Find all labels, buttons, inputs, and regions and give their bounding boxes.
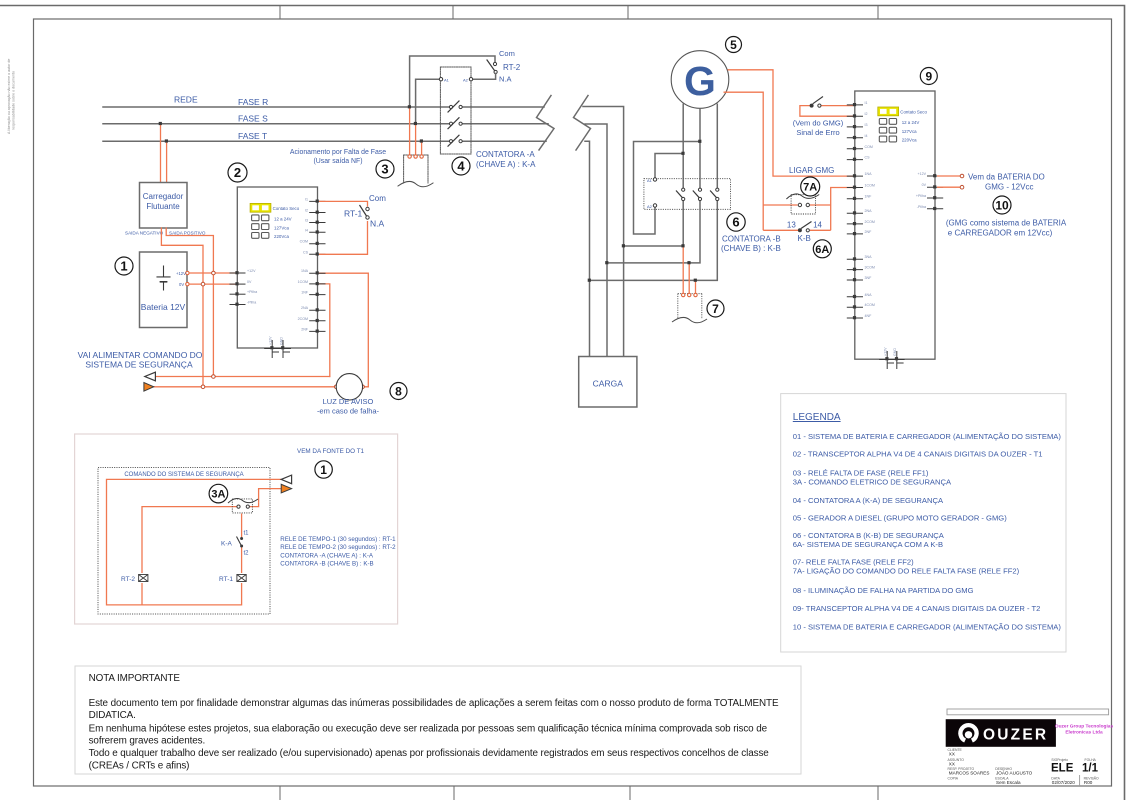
contact K-A timed xyxy=(221,531,249,557)
svg-text:SAIDA NEGATIVO: SAIDA NEGATIVO xyxy=(125,231,164,236)
svg-text:12 a 24V: 12 a 24V xyxy=(902,120,920,125)
wire battery +12V to T1 xyxy=(189,272,236,274)
left rotated disclaimer text xyxy=(7,59,16,134)
svg-text:7A: 7A xyxy=(803,182,817,194)
wire carregador positivo to +12V bus xyxy=(166,228,213,377)
svg-text:RELE DE TEMPO-2 (30 segundos): RELE DE TEMPO-2 (30 segundos) : RT-2 xyxy=(280,544,396,551)
svg-text:NOTA IMPORTANTE: NOTA IMPORTANTE xyxy=(89,673,181,684)
svg-text:1: 1 xyxy=(120,259,127,274)
wire open-arrow line xyxy=(156,376,330,378)
right pins I1..CS xyxy=(309,201,325,254)
svg-text:09- TRANSCEPTOR ALPHA V4 DE 4: 09- TRANSCEPTOR ALPHA V4 DE 4 CANAIS DIG… xyxy=(793,604,1041,613)
svg-text:-Pilha: -Pilha xyxy=(917,205,926,209)
wires K-B bottoms to FF2 (orange taps) xyxy=(683,246,695,294)
svg-text:+12V: +12V xyxy=(918,172,927,176)
contact K-A pole S xyxy=(448,118,462,129)
svg-text:1NF: 1NF xyxy=(301,291,309,295)
svg-text:2NA: 2NA xyxy=(301,306,309,310)
svg-text:I1: I1 xyxy=(305,197,308,201)
top ticks xyxy=(280,6,878,20)
svg-text:FOLHA: FOLHA xyxy=(1085,758,1097,762)
svg-text:1NA: 1NA xyxy=(865,172,873,176)
aux contact 7A (dashed box + wave) xyxy=(786,194,819,214)
svg-text:RT-2: RT-2 xyxy=(503,63,521,72)
svg-text:+12V: +12V xyxy=(269,336,273,345)
svg-text:XX: XX xyxy=(949,752,955,757)
logo icon: open ring + dot xyxy=(960,725,976,740)
svg-text:(Vem do GMG): (Vem do GMG) xyxy=(793,119,844,128)
svg-text:I3: I3 xyxy=(305,219,308,223)
switch RT-1 xyxy=(319,194,386,254)
svg-text:Este documento tem por finalid: Este documento tem por finalidade demons… xyxy=(89,698,779,709)
svg-text:SISTEMA DE SEGURANÇA: SISTEMA DE SEGURANÇA xyxy=(85,360,193,370)
wire carregador feed from FASE T xyxy=(166,141,168,182)
OUZER logo plate xyxy=(946,719,1056,747)
svg-text:220Vca: 220Vca xyxy=(902,138,917,143)
svg-text:3: 3 xyxy=(381,162,388,177)
svg-text:7: 7 xyxy=(712,302,719,316)
svg-text:1COM: 1COM xyxy=(298,280,308,284)
svg-text:Acionamento por Falta de Fase: Acionamento por Falta de Fase xyxy=(290,149,386,156)
svg-text:127Vca: 127Vca xyxy=(274,225,289,230)
wire continuation from break down to CARGA xyxy=(583,107,717,357)
svg-text:CS: CS xyxy=(303,250,309,254)
battery feed stubs xyxy=(937,176,961,187)
svg-text:14: 14 xyxy=(813,221,822,230)
right pins +12V 0V +Pilha -Pilha xyxy=(927,176,943,209)
wire FASE S xyxy=(103,123,548,125)
svg-text:2NA: 2NA xyxy=(865,209,873,213)
svg-text:I1: I1 xyxy=(865,101,868,105)
svg-text:7A- LIGAÇÃO DO COMANDO DO RELE: 7A- LIGAÇÃO DO COMANDO DO RELE FALTA FAS… xyxy=(793,566,1020,575)
svg-text:A1: A1 xyxy=(444,78,450,83)
junction rings orange xyxy=(201,271,364,388)
svg-text:0V: 0V xyxy=(922,183,927,187)
svg-text:2COM: 2COM xyxy=(298,317,308,321)
svg-text:(CHAVE A) : K-A: (CHAVE A) : K-A xyxy=(476,160,536,169)
lamp (luz de aviso) xyxy=(336,374,362,400)
svg-text:(GMG como sistema de BATERIA: (GMG como sistema de BATERIA xyxy=(946,219,1067,228)
node 3 xyxy=(376,160,394,178)
node 6 xyxy=(727,213,745,231)
wire com feed xyxy=(410,56,495,107)
notes xyxy=(280,536,396,568)
aux switch 3A (dashed box + wave) xyxy=(228,499,258,513)
node labels REDE / FASE xyxy=(174,95,268,142)
svg-text:3NF: 3NF xyxy=(865,276,873,280)
svg-text:G: G xyxy=(684,58,716,104)
svg-text:1NF: 1NF xyxy=(865,195,873,199)
svg-text:1COM: 1COM xyxy=(865,184,875,188)
svg-text:5: 5 xyxy=(730,38,737,52)
svg-text:2NF: 2NF xyxy=(301,327,309,331)
svg-text:6: 6 xyxy=(732,215,739,230)
svg-text:+12V: +12V xyxy=(247,269,256,273)
outer faint box xyxy=(75,434,398,624)
node 6A xyxy=(813,240,831,258)
bottom ticks xyxy=(280,786,878,800)
NOTA box xyxy=(75,666,801,774)
arrow out (orange) xyxy=(144,383,154,392)
contact K-B pole 3 xyxy=(710,188,719,201)
svg-text:e CARREGADOR em 12Vcc): e CARREGADOR em 12Vcc) xyxy=(948,229,1053,238)
svg-text:02/07/2020: 02/07/2020 xyxy=(1052,780,1075,785)
arrow in (open) xyxy=(145,372,156,381)
relay FF2 (dashed box, wavy bottom) xyxy=(672,293,707,322)
svg-text:220Vca: 220Vca xyxy=(274,234,289,239)
svg-text:I4: I4 xyxy=(305,228,308,232)
svg-text:N.A: N.A xyxy=(499,75,512,84)
node 3A xyxy=(209,484,228,503)
junction dots xyxy=(681,140,701,155)
node 1 (fonte) xyxy=(315,461,332,478)
svg-text:2: 2 xyxy=(234,165,241,180)
svg-text:COM: COM xyxy=(865,145,873,149)
texts right xyxy=(968,173,1045,192)
company name magenta xyxy=(1055,724,1114,736)
svg-text:+12V: +12V xyxy=(176,271,186,276)
top bar xyxy=(947,709,1109,715)
svg-text:3NA: 3NA xyxy=(865,255,873,259)
contact K-B pole 2 xyxy=(693,188,702,201)
svg-text:CONTATORA -B (CHAVE B) : K-B: CONTATORA -B (CHAVE B) : K-B xyxy=(280,561,373,568)
node 7A xyxy=(801,177,820,196)
svg-text:SAIDA POSITIVO: SAIDA POSITIVO xyxy=(169,231,206,236)
switch RT-2 xyxy=(493,62,496,65)
svg-text:Com: Com xyxy=(499,49,515,58)
svg-text:03 - RELÉ FALTA DE FASE (RELE: 03 - RELÉ FALTA DE FASE (RELE FF1) xyxy=(793,469,929,478)
svg-text:LIGAR GMG: LIGAR GMG xyxy=(789,166,834,175)
svg-text:1: 1 xyxy=(320,463,327,477)
svg-text:Contato Seco: Contato Seco xyxy=(273,206,300,211)
left pins +12V 0V +Pilha -Pilha xyxy=(230,273,246,305)
contact K-B pole 1 xyxy=(676,188,685,201)
svg-text:GND: GND xyxy=(893,348,897,356)
wire coil A1 tap xyxy=(655,154,683,179)
svg-text:Eletronicas Ltda: Eletronicas Ltda xyxy=(1065,730,1103,736)
svg-text:+Pilha: +Pilha xyxy=(247,290,257,294)
svg-text:VAI ALIMENTAR COMANDO DO: VAI ALIMENTAR COMANDO DO xyxy=(78,350,203,360)
CARGA box xyxy=(579,357,637,408)
svg-text:Carregador: Carregador xyxy=(143,192,184,201)
contato seco selector (yellow) xyxy=(250,203,300,212)
svg-text:6A: 6A xyxy=(815,244,829,256)
svg-text:RELE DE TEMPO-1 (30 segundos): RELE DE TEMPO-1 (30 segundos) : RT-1 xyxy=(280,536,396,543)
svg-text:CONTATORA -A (CHAVE A) : K-A: CONTATORA -A (CHAVE A) : K-A xyxy=(280,552,374,559)
contact K-A pole R xyxy=(448,101,462,112)
break (left zigzag) xyxy=(537,96,555,151)
right vertical to 1COM xyxy=(831,188,854,231)
left pins relay groups xyxy=(847,176,863,318)
svg-text:CARGA: CARGA xyxy=(593,379,624,389)
wire G phases down xyxy=(683,104,717,189)
svg-text:COPIA: COPIA xyxy=(948,777,959,781)
svg-text:2COM: 2COM xyxy=(865,220,875,224)
battery symbol xyxy=(157,266,170,290)
node 5 xyxy=(726,37,742,53)
node 4 xyxy=(452,157,470,175)
svg-text:6A- SISTEMA DE SEGURANÇA COM A: 6A- SISTEMA DE SEGURANÇA COM A K-B xyxy=(793,540,943,549)
terminal +12V xyxy=(186,271,189,274)
junction dots xyxy=(408,105,423,142)
svg-text:CONTATORA -B: CONTATORA -B xyxy=(722,235,781,244)
svg-text:CS: CS xyxy=(865,156,871,160)
svg-text:RT-2: RT-2 xyxy=(121,576,135,583)
node 8 xyxy=(390,383,407,400)
svg-text:10: 10 xyxy=(995,199,1009,213)
svg-text:-Pilha: -Pilha xyxy=(247,301,256,305)
right pins 1NA..2NF xyxy=(309,273,325,331)
node 9 xyxy=(920,68,937,85)
svg-text:3A: 3A xyxy=(211,489,225,501)
svg-text:Bateria 12V: Bateria 12V xyxy=(141,302,186,312)
svg-text:A1: A1 xyxy=(647,178,653,183)
svg-text:12 a 24V: 12 a 24V xyxy=(274,217,292,222)
contact K-A pole T xyxy=(448,135,462,146)
label CONTATORA -B xyxy=(721,235,781,254)
svg-text:Contato Seco: Contato Seco xyxy=(900,110,927,115)
svg-text:1/1: 1/1 xyxy=(1082,763,1099,775)
svg-text:REDE: REDE xyxy=(174,95,198,105)
svg-text:07- RELE FALTA FASE (RELE FF2): 07- RELE FALTA FASE (RELE FF2) xyxy=(793,557,914,566)
svg-text:SIGProjeto: SIGProjeto xyxy=(1051,758,1068,762)
voltage selectors xyxy=(879,119,896,142)
terminal A1 xyxy=(653,178,656,181)
svg-text:08 - ILUMINAÇÃO DE FALHA NA PA: 08 - ILUMINAÇÃO DE FALHA NA PARTIDA DO G… xyxy=(793,586,974,595)
svg-text:13: 13 xyxy=(787,221,796,230)
svg-text:FASE R: FASE R xyxy=(238,97,268,107)
svg-text:Em nenhuma hipótese estes proj: Em nenhuma hipótese estes projetos, sua … xyxy=(89,723,768,734)
contato seco selector (yellow) xyxy=(878,107,928,116)
wire bus taps to contactor B bottoms xyxy=(624,199,684,246)
svg-text:Vem da BATERIA DO: Vem da BATERIA DO xyxy=(968,173,1045,182)
left pins I1..CS xyxy=(847,105,863,160)
fields xyxy=(948,748,1100,781)
coil RT-1 xyxy=(219,575,246,584)
comando dashed box xyxy=(98,468,270,615)
wire 1NA drop to lamp xyxy=(319,273,368,387)
svg-text:sofrerem graves acidentes.: sofrerem graves acidentes. xyxy=(89,736,206,747)
aux contact K-B 13-14 xyxy=(787,221,823,244)
svg-text:R00: R00 xyxy=(1084,780,1093,785)
svg-text:(Usar saída NF): (Usar saída NF) xyxy=(313,158,362,165)
svg-text:K-B: K-B xyxy=(798,234,811,243)
svg-text:4COM: 4COM xyxy=(865,303,875,307)
wire FASE R xyxy=(103,106,544,108)
svg-text:+Pilha: +Pilha xyxy=(916,194,926,198)
wire coil A2 loop xyxy=(634,142,701,235)
voltage selectors xyxy=(252,215,269,238)
svg-text:VEM DA FONTE DO T1: VEM DA FONTE DO T1 xyxy=(297,448,365,455)
svg-text:DIDATICA.: DIDATICA. xyxy=(89,710,136,721)
wire carregador negativo to 0V bus xyxy=(161,228,203,387)
contactor K-B dashed box xyxy=(644,179,731,210)
svg-text:1NA: 1NA xyxy=(301,269,309,273)
svg-text:COMANDO DO SISTEMA DE SEGURANÇ: COMANDO DO SISTEMA DE SEGURANÇA xyxy=(124,472,243,478)
svg-text:t1: t1 xyxy=(244,531,250,537)
svg-text:A2: A2 xyxy=(647,204,653,209)
svg-text:04 - CONTATORA A (K-A) DE SEGU: 04 - CONTATORA A (K-A) DE SEGURANÇA xyxy=(793,496,944,505)
bottom pins xyxy=(879,351,904,369)
terminal A2 xyxy=(469,78,472,81)
svg-text:XX: XX xyxy=(949,761,955,766)
node 2 xyxy=(228,163,247,182)
wire battery 0V to T1 xyxy=(189,283,236,285)
svg-text:A2: A2 xyxy=(463,78,469,83)
svg-text:I2: I2 xyxy=(305,209,308,213)
svg-text:4: 4 xyxy=(457,159,465,174)
svg-text:LEGENDA: LEGENDA xyxy=(793,412,841,423)
svg-text:2NF: 2NF xyxy=(865,230,873,234)
arrow out (orange) xyxy=(281,484,291,493)
terminal 0V xyxy=(186,282,189,285)
rung K-B aux xyxy=(763,229,831,231)
svg-text:K-A: K-A xyxy=(221,541,233,548)
svg-text:Todo e qualquer trabalho deve: Todo e qualquer trabalho deve ser realiz… xyxy=(89,748,770,759)
svg-text:MARCOS SOARES: MARCOS SOARES xyxy=(949,770,990,775)
wire lamp line xyxy=(154,386,368,388)
svg-text:10 - SISTEMA DE BATERIA E CARR: 10 - SISTEMA DE BATERIA E CARREGADOR (AL… xyxy=(793,622,1062,631)
svg-text:ELE: ELE xyxy=(1051,763,1074,775)
svg-text:responsabilidade sobre o docum: responsabilidade sobre o documento xyxy=(12,71,16,130)
coil RT-2 xyxy=(121,575,148,584)
svg-text:02 - TRANSCEPTOR ALPHA V4 DE 4: 02 - TRANSCEPTOR ALPHA V4 DE 4 CANAIS DI… xyxy=(793,450,1043,459)
svg-text:JOÃO AUGUSTO: JOÃO AUGUSTO xyxy=(996,769,1033,775)
svg-text:I4: I4 xyxy=(865,134,868,138)
svg-text:FASE S: FASE S xyxy=(238,114,268,124)
wire carregador feed from FASE S xyxy=(160,124,162,183)
node 1 xyxy=(115,257,133,275)
svg-text:06 - CONTATORA B (K-B) DE SEGU: 06 - CONTATORA B (K-B) DE SEGURANÇA xyxy=(793,531,945,540)
svg-text:OUZER: OUZER xyxy=(983,727,1048,744)
rung 7A xyxy=(763,204,831,206)
svg-text:0V: 0V xyxy=(247,280,252,284)
terminal A2 xyxy=(653,204,656,207)
svg-text:01 - SISTEMA DE BATERIA E CARR: 01 - SISTEMA DE BATERIA E CARREGADOR (AL… xyxy=(793,432,1062,441)
node 7 xyxy=(707,300,724,317)
node 10 xyxy=(993,196,1011,214)
wire LIGAR GMG xyxy=(728,70,854,176)
svg-text:t2: t2 xyxy=(244,551,250,557)
terminal A1 xyxy=(439,78,442,81)
wire FASE T xyxy=(103,140,546,142)
svg-text:-em caso de falha-: -em caso de falha- xyxy=(317,407,380,416)
svg-text:RT-1: RT-1 xyxy=(219,576,233,583)
svg-text:CONTATORA -A: CONTATORA -A xyxy=(476,150,535,159)
svg-text:9: 9 xyxy=(925,70,932,84)
generator G xyxy=(671,51,729,109)
svg-text:4NF: 4NF xyxy=(865,314,873,318)
svg-text:Sem Escala: Sem Escala xyxy=(996,780,1021,785)
svg-text:I3: I3 xyxy=(865,123,868,127)
svg-text:05 - GERADOR A DIESEL (GRUPO M: 05 - GERADOR A DIESEL (GRUPO MOTO GERADO… xyxy=(793,513,1007,522)
wire A1 to FASE S xyxy=(416,79,441,124)
node junction dots on bus xyxy=(588,244,625,282)
bottom pins xyxy=(264,340,291,358)
svg-text:FASE T: FASE T xyxy=(238,131,267,141)
arrow in (open) xyxy=(281,475,291,484)
svg-text:N.A: N.A xyxy=(370,219,385,229)
svg-text:GND: GND xyxy=(279,337,283,345)
relay FF1 (dashed box, wavy bottom) xyxy=(398,155,433,187)
svg-text:COM: COM xyxy=(300,240,308,244)
svg-text:8: 8 xyxy=(395,385,402,399)
svg-text:0V: 0V xyxy=(179,282,184,287)
svg-text:127Vca: 127Vca xyxy=(902,129,917,134)
svg-text:LUZ DE AVISO: LUZ DE AVISO xyxy=(323,397,374,406)
svg-text:A liberação ou aprovação não e: A liberação ou aprovação não exime o aut… xyxy=(7,59,11,134)
svg-text:Flutuante: Flutuante xyxy=(146,202,180,211)
svg-text:I2: I2 xyxy=(865,112,868,116)
wire N.A to A2 xyxy=(471,74,496,80)
wire G to safety rung xyxy=(724,92,764,230)
transceptor U-T1 box xyxy=(237,187,317,348)
svg-text:(CREAs / CRTs e afins): (CREAs / CRTs e afins) xyxy=(89,760,190,771)
svg-text:4NA: 4NA xyxy=(865,293,873,297)
svg-text:Ouzer Group Tecnologias: Ouzer Group Tecnologias xyxy=(1055,724,1114,730)
svg-text:Sinal de Erro: Sinal de Erro xyxy=(796,128,839,137)
svg-text:(CHAVE B) : K-B: (CHAVE B) : K-B xyxy=(721,244,781,253)
wire 1COM drop to open-arrow line xyxy=(319,284,330,377)
svg-text:Com: Com xyxy=(369,194,386,203)
label CONTATORA -A xyxy=(476,150,536,169)
svg-text:GMG - 12Vcc: GMG - 12Vcc xyxy=(985,183,1033,192)
LEGENDA box xyxy=(781,394,1066,652)
break (right zigzag) xyxy=(574,96,591,151)
svg-text:+12V: +12V xyxy=(884,347,888,356)
svg-text:3COM: 3COM xyxy=(865,266,875,270)
wire loop (orange) xyxy=(107,479,282,605)
svg-text:RT-1: RT-1 xyxy=(344,209,363,219)
svg-text:3A - COMANDO ELETRICO DE SEGUR: 3A - COMANDO ELETRICO DE SEGURANÇA xyxy=(793,478,952,487)
